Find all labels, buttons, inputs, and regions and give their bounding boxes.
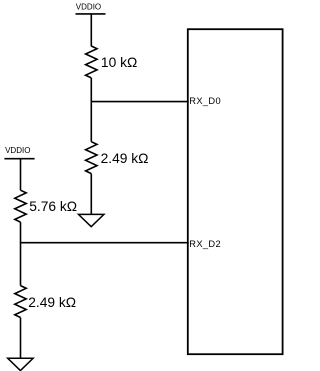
ground symbol (branch 1): [79, 214, 104, 226]
wire R3 bottom to R4 top through node: [20, 222, 22, 286]
wire R1 bottom to R2 top through node: [90, 78, 92, 142]
svg-text:10 kΩ: 10 kΩ: [101, 55, 137, 70]
resistor R1: [86, 46, 97, 78]
resistor R2: [86, 142, 97, 174]
wire R2 bottom to ground: [90, 174, 92, 215]
svg-text:2.49 kΩ: 2.49 kΩ: [28, 295, 76, 310]
wire node to pin RX_D0: [91, 101, 188, 103]
resistor R3: [15, 190, 26, 222]
wire node to pin RX_D2: [21, 242, 189, 244]
svg-text:5.76 kΩ: 5.76 kΩ: [29, 199, 77, 214]
svg-text:2.49 kΩ: 2.49 kΩ: [101, 151, 149, 166]
wire VDDIO bar to R3 top: [20, 159, 22, 191]
power symbol VDDIO (net VDDIO, branch 1): [76, 2, 106, 14]
IC U1: [188, 29, 283, 354]
svg-text:RX_D2: RX_D2: [189, 239, 221, 249]
svg-text:RX_D0: RX_D0: [189, 96, 221, 106]
ground symbol (branch 2): [8, 358, 33, 370]
resistor R4: [15, 286, 26, 318]
svg-text:VDDIO: VDDIO: [76, 2, 101, 11]
svg-text:VDDIO: VDDIO: [5, 146, 30, 155]
wire R4 bottom to ground: [20, 318, 22, 359]
wire VDDIO bar to R1 top: [90, 14, 92, 46]
power symbol VDDIO (net VDDIO, branch 2): [4, 146, 34, 159]
